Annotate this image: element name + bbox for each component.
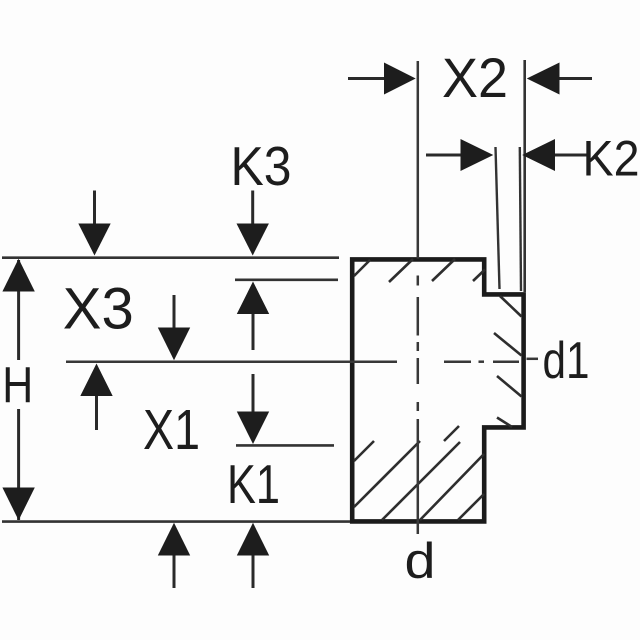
hatch socket [494,296,522,427]
svg-text:K2: K2 [583,131,640,187]
svg-text:X1: X1 [143,398,200,462]
top reference line [2,256,339,259]
fitting body outline [352,259,523,521]
X3 lower arrow [80,364,112,431]
X1 upper arrow [158,295,190,360]
centerline d1 horizontal [66,359,538,362]
K1 bottom arrow [237,523,269,588]
svg-text:H: H [2,357,33,414]
X1 bottom arrow [158,523,190,588]
svg-text:K1: K1 [227,453,280,515]
K1 upper arrow [237,374,269,444]
hatch top edge [354,259,485,282]
hatch lower body [354,426,484,520]
svg-text:d1: d1 [543,332,590,390]
X2 left arrow [348,63,416,95]
K3 lower arrow [237,282,269,351]
X3 upper arrow [78,191,110,256]
K2 left extension line [496,147,500,289]
K3 upper arrow [237,191,269,256]
svg-text:d: d [405,533,436,589]
svg-text:K3: K3 [231,135,292,197]
K2 right extension line [520,147,521,291]
X2 right arrow [527,63,592,95]
K3 reference line [235,278,338,281]
svg-text:X3: X3 [63,277,134,342]
K2 right arrow [522,139,587,171]
dimension H arrow top [2,259,34,292]
centerline d vertical [417,61,420,534]
svg-text:X2: X2 [442,46,508,109]
bottom reference line [2,520,350,523]
K1 reference line [236,444,334,447]
K2 left arrow [426,139,493,171]
dimension H line [17,260,20,520]
X2 right extension line [523,60,526,292]
dimension H arrow bottom [2,488,34,521]
